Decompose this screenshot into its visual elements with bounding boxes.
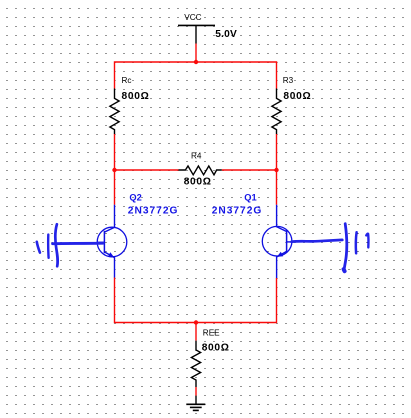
wire right branch mid	[276, 134, 278, 205]
svg-text:800Ω: 800Ω	[283, 91, 311, 102]
svg-text:5.0V: 5.0V	[215, 29, 237, 40]
svg-text:800Ω: 800Ω	[202, 343, 230, 354]
wire bottom rail with emitter drops	[115, 278, 277, 323]
svg-text:Q1: Q1	[244, 192, 256, 202]
resistor R3	[272, 89, 281, 135]
svg-text:R4: R4	[191, 152, 202, 161]
svg-text:2N3772G: 2N3772G	[128, 205, 179, 216]
wire middle rail right	[222, 169, 277, 171]
ground	[186, 396, 205, 411]
hand wire right horizontal	[292, 240, 343, 242]
power symbol VCC	[178, 25, 215, 43]
svg-text:R3: R3	[283, 76, 294, 85]
hand wire left plate	[47, 235, 50, 258]
junction top rail	[194, 60, 198, 64]
wire middle rail left	[115, 169, 179, 171]
hand wire left horizontal	[53, 242, 103, 245]
hand wire right long plate blob	[344, 269, 345, 271]
svg-text:2N3772G: 2N3772G	[212, 205, 263, 216]
wire VCC stub to top rail	[195, 44, 197, 63]
wire top rail with branch drops	[115, 62, 277, 89]
svg-text:800Ω: 800Ω	[122, 91, 150, 102]
transistor Q1	[262, 205, 294, 278]
transistor Q2	[97, 205, 127, 278]
hand wire right short plate	[366, 234, 368, 248]
hand wire left curve	[55, 224, 57, 266]
svg-text:VCC: VCC	[184, 13, 201, 22]
junction middle right	[274, 168, 278, 172]
hand wire right long plate	[344, 224, 347, 271]
resistor R4	[179, 166, 222, 175]
junction middle left	[112, 168, 116, 172]
wire REE to ground	[195, 387, 197, 396]
svg-text:Rc: Rc	[122, 76, 132, 85]
svg-text:REE: REE	[203, 328, 220, 337]
svg-text:800Ω: 800Ω	[184, 177, 212, 188]
svg-text:Q2: Q2	[129, 192, 141, 202]
wire junction to REE	[195, 323, 197, 341]
hand wire left tick	[37, 242, 40, 253]
resistor REE	[191, 341, 200, 387]
resistor Rc	[110, 89, 119, 135]
hand wire right mid plate	[355, 232, 358, 253]
wire left branch mid	[114, 134, 116, 205]
junction bottom rail	[194, 320, 198, 324]
